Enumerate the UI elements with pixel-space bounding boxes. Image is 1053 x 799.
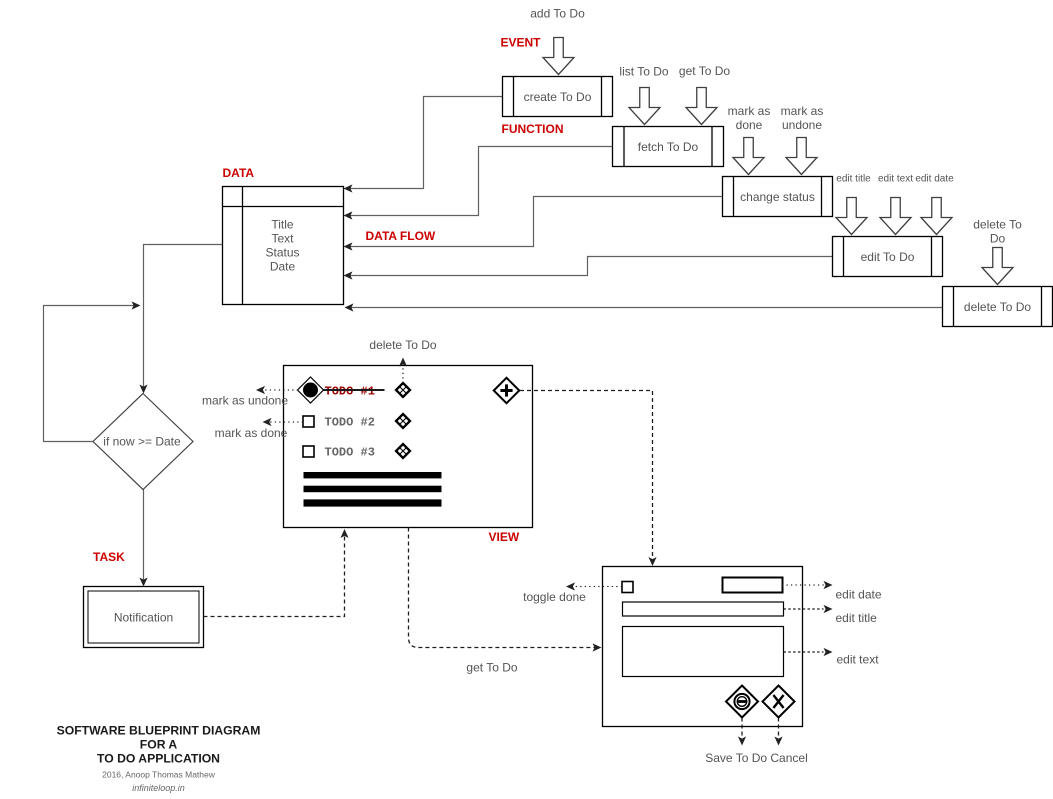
svg-text:EVENT: EVENT [501,36,542,50]
svg-text:DATA FLOW: DATA FLOW [366,229,436,243]
svg-text:Notification: Notification [114,611,173,625]
svg-text:TODO #1: TODO #1 [325,385,375,399]
svg-text:DATA: DATA [223,166,255,180]
svg-text:SOFTWARE BLUEPRINT DIAGRAM: SOFTWARE BLUEPRINT DIAGRAM [57,724,261,738]
svg-text:FOR A: FOR A [140,738,178,752]
svg-text:edit To Do: edit To Do [861,250,915,264]
svg-text:edit date: edit date [915,174,954,185]
svg-text:Do: Do [990,232,1006,246]
svg-text:edit text: edit text [878,174,913,185]
svg-text:infiniteloop.in: infiniteloop.in [132,783,185,793]
svg-text:TASK: TASK [93,550,125,564]
svg-text:Date: Date [270,260,296,274]
svg-text:done: done [736,118,763,132]
svg-text:TODO #2: TODO #2 [325,416,375,430]
svg-text:edit title: edit title [836,611,878,625]
svg-text:FUNCTION: FUNCTION [502,122,564,136]
svg-text:fetch To Do: fetch To Do [638,140,699,154]
svg-text:Save To Do Cancel: Save To Do Cancel [705,751,808,765]
svg-text:list To Do: list To Do [619,65,668,79]
svg-text:get To Do: get To Do [679,64,730,78]
svg-text:Status: Status [265,246,299,260]
svg-text:mark as: mark as [781,104,824,118]
svg-text:mark as: mark as [728,104,771,118]
svg-text:change status: change status [740,190,815,204]
svg-text:delete To Do: delete To Do [369,338,436,352]
svg-text:if now >= Date: if now >= Date [103,435,181,449]
svg-text:delete To Do: delete To Do [964,300,1031,314]
svg-text:delete To: delete To [973,218,1022,232]
svg-text:Text: Text [271,232,294,246]
svg-text:edit text: edit text [837,653,880,667]
svg-text:edit title: edit title [836,174,871,185]
svg-text:mark as undone: mark as undone [202,394,288,408]
svg-text:create To Do: create To Do [524,90,592,104]
svg-text:TODO #3: TODO #3 [325,446,375,460]
svg-text:add To Do: add To Do [530,7,585,21]
svg-text:mark as done: mark as done [215,426,288,440]
svg-text:undone: undone [782,118,822,132]
svg-text:get To Do: get To Do [466,661,517,675]
svg-text:2016, Anoop Thomas Mathew: 2016, Anoop Thomas Mathew [102,770,216,780]
svg-text:VIEW: VIEW [489,530,520,544]
svg-text:edit date: edit date [836,588,882,602]
svg-text:Title: Title [271,218,294,232]
svg-text:TO DO APPLICATION: TO DO APPLICATION [97,752,220,766]
svg-text:toggle done: toggle done [523,590,586,604]
